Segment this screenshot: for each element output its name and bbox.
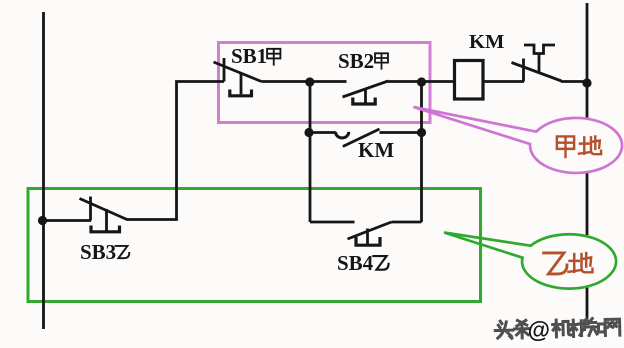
watermark 头条@机械知网: [495, 315, 622, 346]
wire: SB1 to SB2 top row: [262, 80, 347, 83]
callout balloon 甲地: text 甲地: [557, 136, 574, 157]
wire: left rail to SB3: [44, 219, 92, 222]
right power rail middle segment: [586, 168, 589, 235]
location box 甲 (pink rectangle): [219, 43, 431, 123]
contactor coil KM: [455, 61, 484, 100]
callout balloon 甲地: ellipse: [530, 118, 622, 173]
junction: node A at KM contact: [304, 128, 313, 137]
junction: right rail / overload: [582, 78, 591, 87]
callout balloon 甲地: outline with pointer tail: [414, 107, 623, 173]
pushbutton SB4 (NO, start, location 乙): [310, 222, 422, 245]
svg-text:KM: KM: [358, 138, 394, 162]
junction: left rail / SB3: [38, 216, 47, 225]
svg-text:SB1: SB1: [231, 44, 267, 68]
svg-text:SB3: SB3: [80, 240, 116, 264]
callout balloon 乙地: text 乙地: [544, 253, 567, 274]
pushbutton SB1 (NC, stop, location 甲): [214, 58, 262, 96]
wire: left parallel branch riser: [309, 82, 312, 223]
auxiliary contact KM (NO self-holding): [310, 129, 422, 147]
wire: coil to overload contact: [483, 80, 524, 83]
pushbutton SB2 (NO, start, location 甲): [343, 81, 389, 104]
svg-text:SB4: SB4: [337, 251, 374, 275]
junction: node B top (SB2-coil): [417, 77, 426, 86]
callout balloon 乙地: outline with pointer tail: [444, 233, 616, 289]
wire: SB3 output up to SB1 input: [127, 82, 225, 220]
right power rail upper segment: [586, 3, 589, 119]
right power rail lower segment: [586, 286, 589, 319]
junction: node A top (SB1-SB2): [305, 77, 314, 86]
left power rail: [42, 12, 45, 329]
pushbutton SB3 (NC, stop, location 乙): [80, 197, 128, 232]
location box 乙 (green rectangle): [28, 189, 481, 302]
wire: overload contact to right rail: [561, 80, 588, 83]
svg-text:SB2: SB2: [338, 49, 374, 73]
wire: right parallel branch riser: [420, 82, 423, 223]
svg-text:@: @: [527, 316, 550, 342]
svg-text:KM: KM: [469, 31, 504, 53]
callout balloon 乙地: ellipse: [522, 234, 616, 288]
junction: node B at KM contact: [417, 128, 426, 137]
thermal overload relay contact FR (NC): [512, 45, 562, 82]
wire: SB2 output to KM coil: [388, 80, 455, 83]
